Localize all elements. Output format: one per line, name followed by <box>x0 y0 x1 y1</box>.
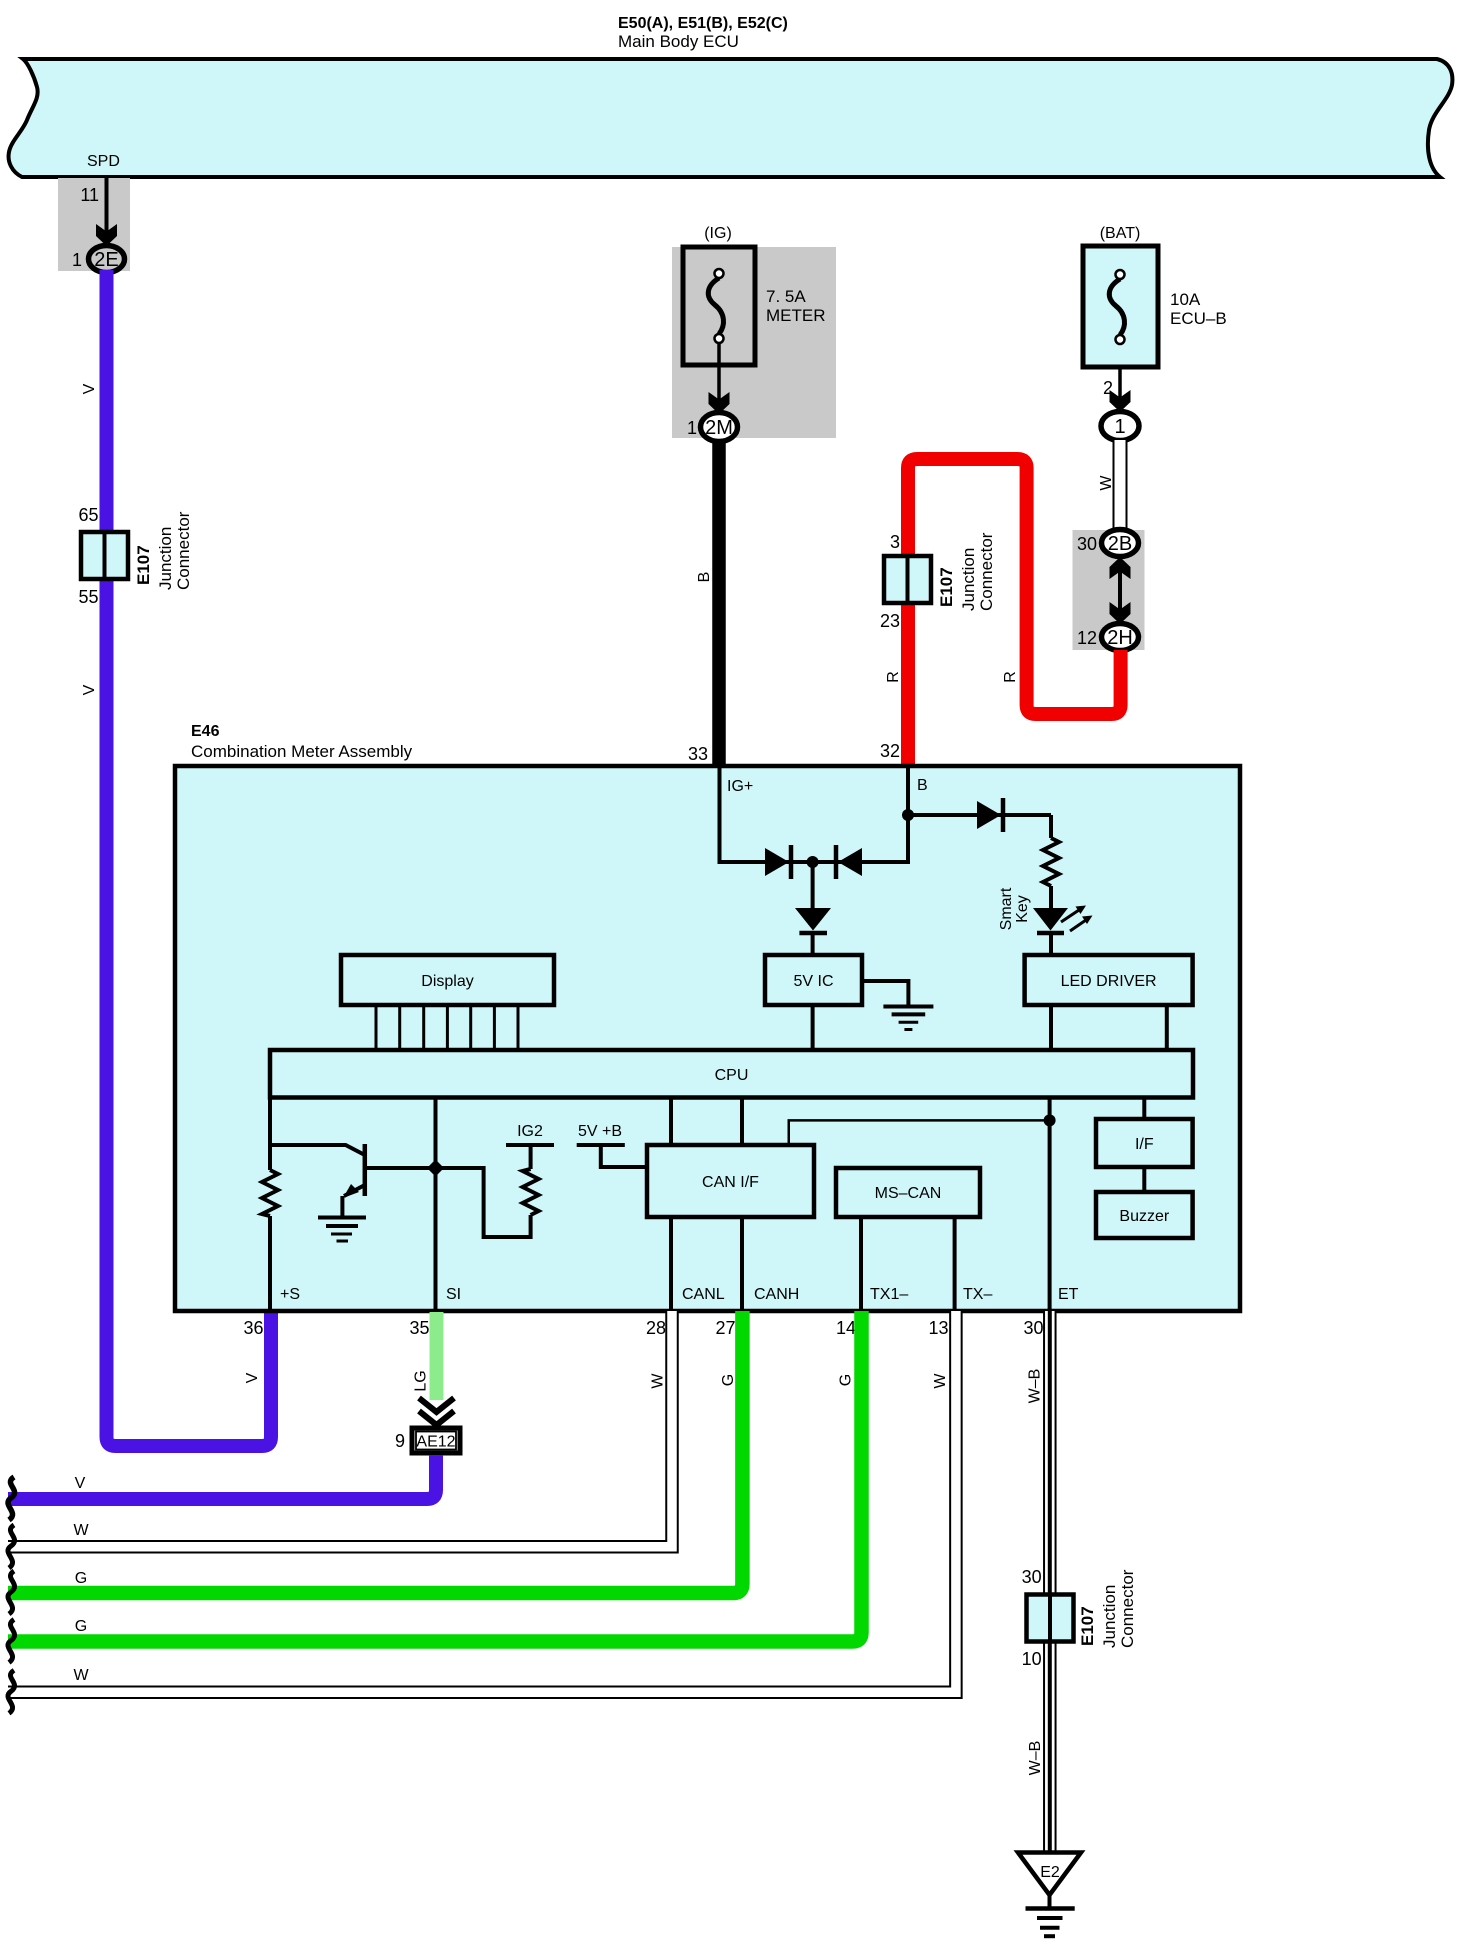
svg-text:27: 27 <box>715 1318 735 1338</box>
svg-text:B: B <box>917 777 928 794</box>
torn edge mark W <box>8 1525 15 1568</box>
svg-text:CANL: CANL <box>682 1286 725 1303</box>
block CAN I/F <box>647 1145 814 1217</box>
diode D1 (IG+ side) <box>765 845 791 879</box>
2B/2H shaded area <box>1073 530 1145 650</box>
wire IG2 resistor to bar <box>529 1145 533 1169</box>
svg-text:E107: E107 <box>937 567 956 607</box>
resistor R3 (IG2) <box>523 1169 539 1215</box>
svg-text:AE12: AE12 <box>416 1434 455 1451</box>
torn edge mark G <box>8 1571 15 1614</box>
diode D4 (LED branch) <box>977 798 1003 832</box>
torn edge mark W2 <box>8 1670 15 1713</box>
svg-text:36: 36 <box>243 1318 263 1338</box>
svg-text:W: W <box>650 1373 667 1389</box>
wire SI from CPU to pin <box>434 1097 438 1311</box>
svg-text:3: 3 <box>890 532 900 552</box>
wire ET from CPU to pin 30 <box>1048 1097 1052 1311</box>
svg-text:30: 30 <box>1022 1567 1042 1587</box>
svg-text:I/F: I/F <box>1135 1136 1154 1153</box>
svg-text:30: 30 <box>1077 534 1097 554</box>
wire diode row <box>720 860 909 864</box>
connector 2E <box>89 246 125 273</box>
wire TX1- to pin 14 <box>859 1217 863 1311</box>
torn edge mark V <box>8 1477 15 1520</box>
arrow into 2E <box>96 224 117 246</box>
wire 5V +B to CAN I/F <box>601 1145 648 1167</box>
svg-text:Connector: Connector <box>174 511 193 590</box>
wire TX- to pin 13 <box>953 1217 957 1311</box>
svg-text:E2: E2 <box>1040 1864 1060 1881</box>
svg-text:R: R <box>885 671 902 683</box>
svg-text:W: W <box>73 1667 89 1684</box>
wire W from pin 28 to left <box>0 1311 672 1547</box>
svg-text:IG+: IG+ <box>727 778 753 795</box>
svg-text:7. 5A: 7. 5A <box>766 287 806 306</box>
block CPU <box>270 1050 1193 1098</box>
junction connector E107 (red) <box>884 556 931 603</box>
wire 5V IC to ground <box>862 981 908 1005</box>
diode D2 (B side) <box>836 845 862 879</box>
svg-text:CANH: CANH <box>754 1286 799 1303</box>
svg-text:TX1–: TX1– <box>870 1286 908 1303</box>
wire CAN I/F to ET line <box>789 1120 1050 1144</box>
wires CPU to CAN I/F <box>669 1097 673 1145</box>
svg-text:V: V <box>244 1372 261 1383</box>
wire V from AE12 to left <box>8 1455 436 1499</box>
svg-text:9: 9 <box>395 1431 405 1451</box>
svg-text:1: 1 <box>1114 416 1125 438</box>
svg-text:E107: E107 <box>1078 1606 1097 1646</box>
svg-text:Main Body ECU: Main Body ECU <box>618 32 739 51</box>
arrow into 2M <box>709 392 730 414</box>
svg-text:2M: 2M <box>705 417 733 439</box>
svg-text:Connector: Connector <box>1118 1569 1137 1648</box>
wire B branch to LED <box>908 813 1051 817</box>
svg-text:ECU–B: ECU–B <box>1170 309 1227 328</box>
wire IG+ internal <box>718 768 722 864</box>
junction connector E107 (W-B) <box>1027 1595 1074 1642</box>
ground E2 <box>1018 1853 1081 1937</box>
svg-text:+S: +S <box>280 1286 300 1303</box>
wire D3 to 5V IC <box>811 934 815 956</box>
svg-text:23: 23 <box>880 611 900 631</box>
svg-text:Buzzer: Buzzer <box>1119 1208 1169 1225</box>
svg-text:14: 14 <box>836 1318 856 1338</box>
svg-text:Smart: Smart <box>998 887 1015 930</box>
svg-text:W: W <box>1098 475 1115 491</box>
svg-text:28: 28 <box>646 1318 666 1338</box>
wires LED DRIVER to CPU <box>1049 1005 1053 1050</box>
wire I/F to Buzzer <box>1142 1167 1146 1192</box>
svg-text:CAN I/F: CAN I/F <box>702 1174 759 1191</box>
wire collector tap <box>270 1145 365 1155</box>
node ET junction <box>1044 1114 1056 1126</box>
svg-text:SPD: SPD <box>87 153 120 170</box>
connector 2H <box>1102 624 1139 651</box>
resistor R2 (LED) <box>1043 838 1059 886</box>
block LED DRIVER <box>1025 955 1193 1005</box>
resistor R1 (+S) <box>262 1170 278 1216</box>
arrow chevrons into AE12 <box>419 1398 454 1412</box>
junction connector E107 (violet) <box>81 532 128 579</box>
svg-text:LG: LG <box>413 1370 430 1391</box>
svg-text:5V +B: 5V +B <box>578 1123 622 1140</box>
svg-text:(IG): (IG) <box>704 225 732 242</box>
wire +S from CPU <box>268 1097 272 1170</box>
svg-text:E46: E46 <box>191 723 220 740</box>
block 5V IC <box>765 955 862 1005</box>
IG shaded area <box>672 247 836 438</box>
svg-text:65: 65 <box>78 505 98 525</box>
svg-text:32: 32 <box>880 741 900 761</box>
svg-text:B: B <box>696 572 713 583</box>
svg-text:E50(A), E51(B), E52(C): E50(A), E51(B), E52(C) <box>618 15 788 32</box>
svg-text:W: W <box>73 1522 89 1539</box>
transistor Q1 <box>343 1144 430 1198</box>
node SI junction <box>427 1160 444 1177</box>
svg-text:Connector: Connector <box>977 532 996 611</box>
wire G from pin 14 to left <box>8 1311 862 1642</box>
ground (transistor) <box>318 1218 366 1242</box>
svg-text:V: V <box>81 383 98 394</box>
svg-text:W–B: W–B <box>1027 1369 1044 1404</box>
SPD pin shaded area <box>58 178 130 271</box>
svg-text:Junction: Junction <box>1100 1585 1119 1648</box>
main body ECU band E50/E51/E52 <box>9 59 1453 177</box>
torn edge mark G2 <box>8 1620 15 1663</box>
svg-text:2H: 2H <box>1107 627 1133 649</box>
wire G from pin 27 to left <box>8 1311 742 1593</box>
LED smart key <box>1033 906 1093 934</box>
block Display <box>341 955 554 1005</box>
svg-text:12: 12 <box>1077 628 1097 648</box>
wire between arrows <box>1118 570 1122 612</box>
wire V violet: 2E down, right, up to pin 36 <box>107 270 272 1446</box>
svg-text:TX–: TX– <box>963 1286 992 1303</box>
svg-text:10A: 10A <box>1170 290 1201 309</box>
svg-text:V: V <box>75 1475 86 1492</box>
wires Display to CPU <box>376 1005 518 1050</box>
wire W-B from pin 30 to E2 <box>1043 1311 1057 1853</box>
fuse 7.5A METER <box>683 247 755 365</box>
svg-text:2B: 2B <box>1108 533 1132 555</box>
block Buzzer <box>1096 1192 1193 1238</box>
svg-text:5V IC: 5V IC <box>793 973 833 990</box>
arrow down to 2H <box>1110 602 1131 624</box>
5V +B terminal bar <box>577 1143 625 1147</box>
svg-text:(BAT): (BAT) <box>1100 225 1141 242</box>
svg-text:IG2: IG2 <box>517 1123 543 1140</box>
wire B black: 2M to IG+ pin 33 <box>712 440 726 766</box>
svg-text:E107: E107 <box>134 545 153 585</box>
wire CANL to pin 28 <box>669 1217 673 1311</box>
svg-text:Display: Display <box>421 973 473 990</box>
wire emitter to ground <box>340 1196 344 1217</box>
svg-text:G: G <box>75 1618 87 1635</box>
wire LG from pin 35 <box>430 1312 444 1400</box>
connector 2B <box>1102 530 1139 557</box>
fuse 10A ECU-B <box>1083 246 1158 367</box>
arrow into 1 <box>1110 390 1131 412</box>
wire CANH to pin 27 <box>740 1217 744 1311</box>
combination meter assembly box E46 <box>175 766 1240 1311</box>
node diode junction <box>807 856 819 868</box>
svg-text:30: 30 <box>1023 1318 1043 1338</box>
block MS-CAN <box>836 1168 980 1217</box>
connector 1 <box>1101 412 1139 441</box>
svg-text:METER: METER <box>766 306 826 325</box>
svg-text:Combination Meter Assembly: Combination Meter Assembly <box>191 742 413 761</box>
svg-text:1: 1 <box>687 418 697 438</box>
block I/F <box>1096 1119 1193 1167</box>
svg-text:G: G <box>75 1570 87 1587</box>
wire LED to LED DRIVER <box>1049 934 1053 956</box>
wire 5V IC to CPU <box>811 1005 815 1050</box>
svg-text:11: 11 <box>80 185 99 205</box>
IG2 terminal bar <box>506 1143 554 1147</box>
svg-text:55: 55 <box>78 587 98 607</box>
svg-text:SI: SI <box>446 1286 461 1303</box>
wire to resistor <box>1049 815 1053 838</box>
wire resistor to +S pin <box>268 1216 272 1311</box>
svg-text:2E: 2E <box>94 249 118 271</box>
svg-text:R: R <box>1002 671 1019 683</box>
wire fuse to 2M <box>717 343 721 412</box>
svg-text:MS–CAN: MS–CAN <box>875 1185 942 1202</box>
svg-text:CPU: CPU <box>715 1067 749 1084</box>
wire SPD pin lead <box>105 178 109 244</box>
wire W white hollow <box>1113 440 1128 532</box>
svg-text:LED DRIVER: LED DRIVER <box>1061 973 1157 990</box>
node B branch <box>902 809 914 821</box>
diode D3 (to 5V IC) <box>795 908 831 933</box>
wire CPU to I/F <box>1142 1097 1146 1119</box>
ground (5V IC) <box>883 1007 933 1030</box>
svg-text:13: 13 <box>928 1318 948 1338</box>
wire fuse to 1 <box>1118 369 1122 410</box>
svg-text:Junction: Junction <box>156 527 175 590</box>
svg-text:Junction: Junction <box>959 548 978 611</box>
svg-text:G: G <box>720 1374 737 1386</box>
svg-text:W: W <box>932 1373 949 1389</box>
svg-text:W–B: W–B <box>1027 1741 1044 1776</box>
wire W from pin 13 to left <box>0 1311 956 1692</box>
wire R red: 2H to pin 32 <box>908 459 1121 766</box>
connector 2M <box>701 413 738 442</box>
svg-text:35: 35 <box>409 1318 429 1338</box>
svg-text:1: 1 <box>72 250 82 270</box>
wire B internal <box>906 768 910 864</box>
svg-text:Key: Key <box>1014 895 1031 923</box>
svg-text:G: G <box>838 1374 855 1386</box>
svg-text:33: 33 <box>688 744 708 764</box>
wire resistor to LED <box>1049 886 1053 908</box>
connector AE12 <box>412 1428 460 1453</box>
arrow up to 2B <box>1110 557 1131 579</box>
wire SI to IG2 resistor <box>436 1168 531 1237</box>
svg-text:V: V <box>81 684 98 695</box>
svg-text:ET: ET <box>1058 1286 1079 1303</box>
wire junction to D3 <box>811 862 815 908</box>
svg-text:10: 10 <box>1022 1649 1042 1669</box>
